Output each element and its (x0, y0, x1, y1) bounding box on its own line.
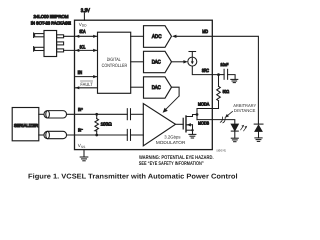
svg-text:MD: MD (202, 29, 208, 34)
wire C3 to modulator (131, 134, 144, 136)
wire top line to IN+ cap (67, 113, 128, 115)
resistor R2 100 ohm termination (95, 114, 99, 135)
capacitor C1 10nF (224, 69, 228, 79)
block DIGITAL CONTROLLER (98, 32, 131, 93)
svg-text:24LC00 EEPROM: 24LC00 EEPROM (34, 14, 69, 19)
wire controller to ADC (131, 35, 144, 37)
wire drain tap (186, 115, 197, 117)
svg-text:WARNING: POTENTIAL EYE HAZARD.: WARNING: POTENTIAL EYE HAZARD. (139, 155, 214, 161)
label DIGITAL CONTROLLER (102, 57, 128, 69)
block DAC2 (144, 77, 172, 98)
wire VSS to ground (83, 150, 85, 157)
block ADC (144, 26, 172, 48)
wire DAC1 to current source (172, 61, 185, 63)
arrowhead into current source (183, 60, 187, 63)
junction IN+ node (95, 113, 98, 116)
wire serializer to bottom transmission line (39, 134, 44, 136)
svg-text:IN⁺: IN⁺ (78, 107, 83, 112)
svg-text:SEE “EYE SAFETY INFORMATION”: SEE “EYE SAFETY INFORMATION” (139, 161, 204, 167)
wire bottom line to IN- cap (67, 134, 128, 136)
label 3.2Gbps MODULATOR (156, 135, 186, 146)
ground (MOSFET source) (189, 134, 196, 138)
warning text (139, 155, 214, 167)
svg-text:MODULATOR: MODULATOR (156, 140, 186, 145)
capacitor C3 (IN- coupling) (127, 129, 130, 140)
current source I1 (bias) (188, 52, 197, 67)
pin EEPROM right pin 2 (57, 42, 64, 45)
wire DAC2 to modulator (172, 87, 180, 96)
arrowhead SCL right (93, 49, 97, 52)
EEPROM U2 24LC00 SOT-23 body (44, 31, 57, 57)
wire MODB to VCSEL (197, 120, 235, 125)
wire controller to DAC1 (131, 61, 144, 63)
wire controller to DAC2 (131, 86, 144, 88)
arrowhead into ADC tip (172, 35, 176, 38)
resistor R1 50 ohm (217, 75, 221, 109)
SERIALIZER box (12, 108, 39, 141)
wire SDA from EEPROM to controller (64, 35, 97, 37)
svg-text:SDA: SDA (79, 29, 86, 34)
svg-text:3.2Gbps: 3.2Gbps (164, 135, 181, 140)
capacitor C2 (IN+ coupling) (127, 109, 130, 120)
pin EEPROM right pin 1 (57, 35, 64, 38)
ground (VCSEL) (231, 138, 238, 142)
svg-text:IN⁻: IN⁻ (78, 127, 83, 132)
arrow DAC2 into modulator (163, 96, 180, 113)
VCSEL D1 (231, 124, 238, 138)
svg-text:DISTANCE: DISTANCE (234, 108, 256, 113)
svg-text:MODB: MODB (198, 120, 209, 125)
node 3.3V supply (83, 13, 85, 20)
svg-text:DAC: DAC (152, 59, 161, 65)
pin EEPROM left pin B (34, 47, 44, 52)
wire MODA (197, 109, 219, 120)
modulator amplifier triangle (143, 104, 175, 146)
wire SCL from EEPROM to controller (64, 49, 97, 51)
pointer arrow from label to break (225, 111, 233, 117)
ground (10nF) (231, 79, 238, 82)
monitor photodiode D2 (254, 124, 263, 138)
svg-text:3.3V: 3.3V (81, 8, 90, 14)
svg-text:IN SOT-23 PACKAGE: IN SOT-23 PACKAGE (31, 20, 71, 25)
svg-text:Figure 1. VCSEL Transmitter wi: Figure 1. VCSEL Transmitter with Automat… (28, 174, 238, 181)
svg-text:MODA: MODA (198, 102, 209, 107)
pin label VSS (78, 143, 86, 149)
light emission arrows (241, 125, 248, 131)
transmission line TL2 (capsule) (44, 131, 67, 138)
arrowhead FAULT left (75, 86, 79, 89)
arrowhead EN right (93, 75, 97, 78)
svg-text:EN: EN (78, 70, 83, 75)
pin label VDD (79, 22, 87, 28)
wire FAULT out of controller (75, 87, 98, 89)
transmission line TL1 (capsule) (44, 111, 67, 118)
svg-text:DIGITAL: DIGITAL (107, 57, 121, 63)
wire capacitor to ground (228, 75, 236, 80)
svg-text:FAULT: FAULT (80, 82, 92, 88)
svg-text:DAC: DAC (152, 85, 161, 91)
transistor Q1 (modulation MOSFET) (176, 116, 194, 134)
pin EEPROM left pin A (34, 33, 44, 38)
pin EEPROM right pin 3 (57, 49, 64, 52)
svg-text:VDD: VDD (79, 22, 87, 28)
arrowhead SDA left (75, 35, 79, 38)
block DAC1 (144, 51, 172, 72)
transmission line break symbol (220, 117, 225, 123)
pin label FAULT (with overbar) (80, 81, 92, 88)
wire MD from photodiode to ADC (176, 36, 258, 124)
label ARBITRARY DISTANCE (233, 103, 256, 113)
ground (VSS) (80, 157, 88, 161)
junction IN- node (95, 134, 98, 137)
wire C2 to modulator (131, 113, 144, 115)
junction drain node (196, 113, 199, 116)
junction SRC node (217, 73, 220, 76)
svg-text:VSS: VSS (78, 143, 86, 149)
svg-text:SERIALIZER: SERIALIZER (14, 123, 38, 128)
svg-text:50Ω: 50Ω (223, 89, 230, 94)
wire EN into controller (75, 76, 97, 78)
svg-text:ADC: ADC (152, 34, 162, 40)
wire SRC node to capacitor (219, 74, 225, 76)
arrowhead SCL left (75, 49, 79, 52)
svg-text:DN242 F01: DN242 F01 (217, 148, 227, 152)
wire serializer to top transmission line (39, 113, 44, 115)
svg-text:100Ω: 100Ω (101, 122, 113, 127)
svg-text:SCL: SCL (80, 45, 86, 50)
svg-text:10nF: 10nF (220, 62, 228, 67)
arrowhead SDA right (93, 35, 97, 38)
ground (photodiode) (255, 138, 262, 142)
IC U1 outline (VCSEL driver chip) (75, 20, 213, 149)
svg-text:CONTROLLER: CONTROLLER (102, 63, 128, 69)
svg-text:SRC: SRC (202, 68, 210, 73)
wire current source to SRC pin (192, 66, 218, 75)
